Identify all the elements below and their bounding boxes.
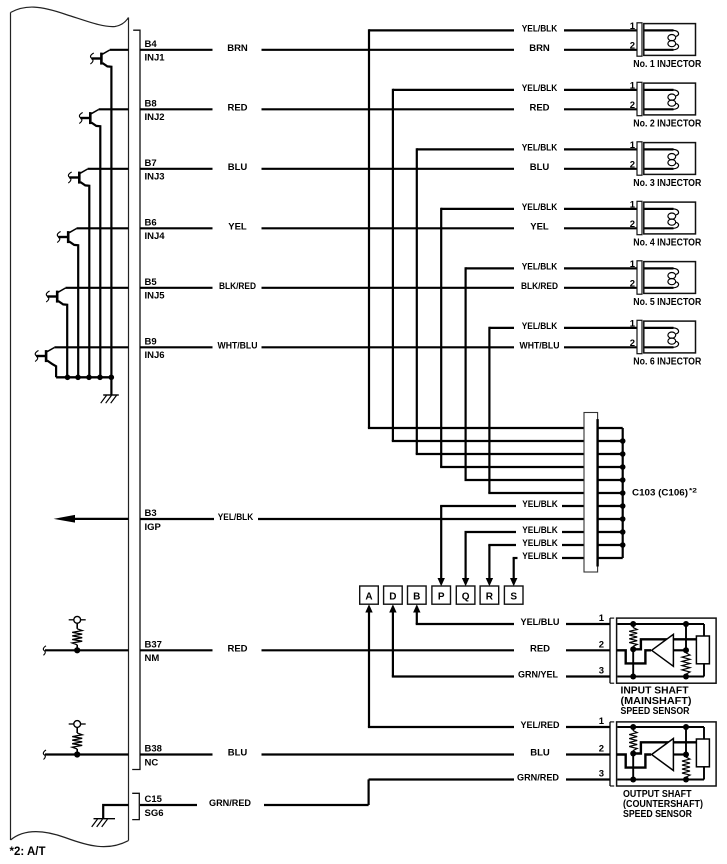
wire Q vertical with arrow bbox=[462, 532, 469, 586]
svg-text:*2: A/T: *2: A/T bbox=[10, 846, 46, 858]
svg-text:B: B bbox=[413, 592, 420, 603]
wire YEL/BLK injector 2 pin 1 to connector bbox=[564, 89, 637, 91]
svg-text:INJ2: INJ2 bbox=[145, 112, 165, 123]
pin number 2 injector 3 bbox=[630, 160, 635, 171]
junction C103 bus dot 7 bbox=[620, 516, 626, 522]
pin number 2 injector 2 bbox=[630, 100, 635, 111]
svg-text:C103 (C106): C103 (C106) bbox=[632, 488, 688, 499]
label No. 5 INJECTOR bbox=[633, 297, 702, 308]
ECU connector bracket B4-B38 bbox=[132, 30, 140, 769]
injector L4 coil symbol No. 4 INJECTOR bbox=[637, 201, 696, 234]
junction C103 bus dot 8 bbox=[620, 529, 626, 535]
label YEL (right) bbox=[530, 222, 549, 233]
junction C103 bus dot 6 bbox=[620, 503, 626, 509]
wire ECU internal collector Q3 to pin B7 bbox=[88, 168, 129, 170]
wire YEL/BLK R horizontal bbox=[488, 544, 516, 546]
wire YEL/BLK injector 6 pin 1 horizontal bbox=[489, 327, 514, 329]
wire YEL/BLK R to C103 bbox=[562, 544, 584, 546]
svg-text:INJ5: INJ5 bbox=[145, 291, 166, 302]
wire YEL/RED (A terminal to sensor 2 pin 1) bbox=[368, 720, 610, 731]
svg-text:1: 1 bbox=[630, 259, 636, 270]
injector L3 coil symbol No. 3 INJECTOR bbox=[637, 142, 696, 175]
wire YEL/BLK injector 5 to C103 bbox=[465, 479, 585, 481]
connector terminal box R bbox=[480, 586, 499, 604]
wire GRN/RED upper segment bbox=[369, 778, 514, 780]
wire C15 internal to ground bbox=[103, 805, 128, 819]
wire BLK/RED B5 segment at ECU bbox=[140, 287, 213, 289]
svg-text:WHT/BLU: WHT/BLU bbox=[520, 341, 560, 352]
wire YEL/BLK P to C103 bbox=[562, 505, 584, 507]
svg-text:SPEED SENSOR: SPEED SENSOR bbox=[621, 706, 691, 717]
svg-text:2: 2 bbox=[630, 160, 635, 171]
pin label B4/INJ1 bbox=[145, 39, 166, 64]
pin label B38/NC bbox=[145, 744, 162, 769]
injector L5 coil symbol No. 5 INJECTOR bbox=[637, 261, 696, 294]
wire R vertical with arrow bbox=[486, 545, 493, 586]
wire WHT/BLU mid segment bbox=[262, 346, 515, 348]
svg-text:R: R bbox=[486, 592, 494, 603]
junction emitter bus dot 2 bbox=[75, 375, 81, 381]
wire RED to sensor pin 2 bbox=[566, 649, 610, 651]
svg-text:INJ6: INJ6 bbox=[145, 350, 165, 361]
svg-text:B7: B7 bbox=[145, 158, 157, 169]
label C103 (C106)*2 bbox=[632, 488, 697, 499]
injector L1 coil symbol No. 1 INJECTOR bbox=[637, 23, 696, 56]
wire BRN to injector pin 2 bbox=[564, 49, 637, 51]
wire RED B37 at ECU bbox=[140, 649, 213, 651]
wire YEL/BLK B3 to C103 bbox=[258, 518, 584, 520]
wire GRN/RED mid segment bbox=[264, 804, 369, 806]
label YEL/BLK (S) bbox=[522, 551, 558, 562]
svg-text:2: 2 bbox=[630, 41, 635, 52]
transistor Q2 (INJ2 driver) bbox=[79, 110, 100, 378]
svg-text:BRN: BRN bbox=[529, 43, 550, 54]
wire BLU to sensor 2 pin 2 bbox=[566, 753, 610, 755]
wire D vertical with arrow bbox=[389, 604, 396, 676]
wire YEL/BLK injector 5 pin 1 to connector bbox=[564, 267, 637, 269]
svg-text:D: D bbox=[389, 592, 396, 603]
pin number 2 sensor 1 bbox=[599, 639, 604, 650]
label BLU (left) bbox=[228, 162, 248, 173]
svg-text:BRN: BRN bbox=[227, 43, 248, 54]
svg-text:BLU: BLU bbox=[530, 162, 550, 173]
label RED (left) bbox=[227, 103, 247, 114]
connector terminal box A bbox=[360, 586, 379, 604]
wire GRN/RED to sensor 2 pin 3 bbox=[566, 778, 610, 780]
wire YEL/BLK injector 3 to C103 bbox=[416, 453, 584, 455]
resistor pull-up R (NM) bbox=[69, 616, 86, 653]
pin label B37/NM bbox=[145, 639, 162, 664]
label BLK/RED (left) bbox=[219, 281, 256, 292]
wire BRN mid segment bbox=[262, 49, 515, 51]
label YEL (left) bbox=[228, 222, 247, 233]
svg-text:YEL/BLK: YEL/BLK bbox=[522, 83, 558, 94]
label YEL/BLK (P) bbox=[522, 499, 558, 510]
wire BLU B38 at ECU bbox=[140, 753, 213, 755]
svg-text:B4: B4 bbox=[145, 39, 158, 50]
pin label B6/INJ4 bbox=[145, 217, 166, 242]
svg-text:INJ3: INJ3 bbox=[145, 172, 165, 183]
connector terminal box D bbox=[384, 586, 403, 604]
wire RED mid segment bbox=[262, 649, 515, 651]
svg-text:YEL/BLK: YEL/BLK bbox=[522, 499, 558, 510]
svg-text:1: 1 bbox=[630, 140, 636, 151]
label YEL/BLK injector 3 bbox=[522, 143, 558, 154]
svg-text:2: 2 bbox=[630, 219, 635, 230]
pin number 2 injector 4 bbox=[630, 219, 635, 230]
label WHT/BLU (left) bbox=[218, 341, 258, 352]
junction C103 bus dot 9 bbox=[620, 542, 626, 548]
label BLK/RED (right) bbox=[521, 281, 558, 292]
svg-text:RED: RED bbox=[227, 644, 247, 655]
wire YEL/BLK injector 3 vertical bbox=[416, 148, 418, 454]
wire S vertical with arrow bbox=[510, 558, 517, 586]
label No. 2 INJECTOR bbox=[633, 118, 702, 129]
svg-text:B5: B5 bbox=[145, 277, 158, 288]
injector L6 coil symbol No. 6 INJECTOR bbox=[637, 320, 696, 353]
label RED (right) bbox=[530, 644, 550, 655]
pin number 1 sensor 1 bbox=[599, 613, 605, 624]
pin number 1 injector 4 bbox=[630, 200, 636, 211]
wire BRN B4 segment at ECU bbox=[140, 49, 213, 51]
junction emitter bus dot 3 bbox=[86, 375, 92, 381]
svg-text:WHT/BLU: WHT/BLU bbox=[218, 341, 258, 352]
wire YEL/BLK injector 1 vertical bbox=[368, 29, 370, 428]
svg-text:No. 3 INJECTOR: No. 3 INJECTOR bbox=[633, 178, 702, 189]
junction C103 bus dot 5 bbox=[620, 490, 626, 496]
pin number 3 sensor 2 bbox=[599, 769, 604, 780]
svg-text:1: 1 bbox=[599, 716, 605, 727]
pin number 1 injector 1 bbox=[630, 21, 636, 32]
wire B vertical with arrow bbox=[413, 604, 420, 624]
svg-text:YEL/BLK: YEL/BLK bbox=[218, 512, 254, 523]
ECU torn-page top edge bbox=[11, 7, 129, 27]
svg-text:BLU: BLU bbox=[228, 748, 248, 759]
svg-text:No. 5 INJECTOR: No. 5 INJECTOR bbox=[633, 297, 702, 308]
injector L2 coil symbol No. 2 INJECTOR bbox=[637, 82, 696, 115]
speed sensor U2 box and internals bbox=[610, 722, 716, 786]
wire YEL to injector pin 2 bbox=[564, 227, 637, 229]
pin label B3/IGP bbox=[145, 508, 162, 533]
wire YEL/BLK injector 3 pin 1 horizontal bbox=[417, 148, 514, 150]
svg-text:RED: RED bbox=[530, 644, 550, 655]
svg-text:BLK/RED: BLK/RED bbox=[521, 281, 558, 292]
pin number 1 injector 2 bbox=[630, 81, 636, 92]
label GRN/RED (left) bbox=[209, 798, 251, 809]
svg-text:GRN/RED: GRN/RED bbox=[517, 773, 559, 784]
wire ECU internal collector Q6 to pin B9 bbox=[54, 346, 128, 348]
svg-text:3: 3 bbox=[599, 666, 604, 677]
label YEL/BLK (IGP) bbox=[218, 512, 254, 523]
svg-text:INJ1: INJ1 bbox=[145, 53, 166, 64]
wire YEL/BLK S to C103 bbox=[562, 557, 584, 559]
pin number 3 sensor 1 bbox=[599, 666, 604, 677]
svg-text:B38: B38 bbox=[145, 744, 162, 755]
wire YEL/BLK injector 6 vertical bbox=[488, 327, 490, 493]
wire YEL/BLK injector 4 pin 1 horizontal bbox=[441, 208, 514, 210]
label RED (left) bbox=[227, 644, 247, 655]
transistor Q1 (INJ1 driver) bbox=[90, 50, 111, 377]
wire YEL/BLK Q horizontal bbox=[465, 531, 517, 533]
label No. 4 INJECTOR bbox=[633, 237, 702, 248]
svg-text:1: 1 bbox=[630, 81, 636, 92]
ECU connector bracket C15 bbox=[132, 793, 139, 819]
connector terminal box Q bbox=[456, 586, 475, 604]
svg-text:YEL/BLK: YEL/BLK bbox=[522, 143, 558, 154]
wire-end break mark B37 bbox=[43, 646, 46, 656]
speed sensor U1 box and internals bbox=[610, 618, 716, 683]
svg-text:B9: B9 bbox=[145, 336, 157, 347]
svg-text:YEL/BLU: YEL/BLU bbox=[521, 617, 560, 628]
svg-text:YEL/BLK: YEL/BLK bbox=[522, 262, 558, 273]
label BLU (right) bbox=[530, 748, 550, 759]
label No. 1 INJECTOR bbox=[633, 59, 702, 70]
wire YEL/BLK injector 6 to C103 bbox=[488, 492, 584, 494]
wire-end break mark B38 bbox=[43, 750, 46, 760]
wire YEL/BLK injector 1 pin 1 horizontal bbox=[369, 29, 514, 31]
wire YEL/BLK injector 4 vertical bbox=[440, 208, 442, 467]
svg-text:A: A bbox=[365, 592, 372, 603]
junction emitter bus dot 1 bbox=[65, 375, 71, 381]
wire YEL B6 segment at ECU bbox=[140, 227, 213, 229]
note *2: A/T bbox=[10, 846, 46, 858]
wire BLU B7 segment at ECU bbox=[140, 168, 213, 170]
svg-text:Q: Q bbox=[462, 592, 470, 603]
label YEL/BLK injector 6 bbox=[522, 321, 558, 332]
wire WHT/BLU to injector pin 2 bbox=[564, 346, 637, 348]
wire BLU mid segment bbox=[262, 168, 515, 170]
pin number 1 sensor 2 bbox=[599, 716, 605, 727]
svg-text:YEL: YEL bbox=[530, 222, 549, 233]
ECU torn-page right edge bbox=[128, 18, 130, 841]
label WHT/BLU (right) bbox=[520, 341, 560, 352]
svg-text:IGP: IGP bbox=[145, 522, 162, 533]
junction emitter bus dot 4 bbox=[97, 375, 103, 381]
wire RED B8 segment at ECU bbox=[140, 108, 213, 110]
pin number 1 injector 3 bbox=[630, 140, 636, 151]
wire YEL mid segment bbox=[262, 227, 515, 229]
wire YEL/BLK injector 6 pin 1 to connector bbox=[564, 327, 637, 329]
svg-text:RED: RED bbox=[227, 103, 247, 114]
label YEL/BLK (Q) bbox=[522, 525, 558, 536]
resistor pull-up R (NC) bbox=[69, 721, 86, 758]
label YEL/BLK (R) bbox=[522, 538, 558, 549]
svg-text:INJ4: INJ4 bbox=[145, 231, 166, 242]
wire YEL/BLK Q to C103 bbox=[562, 531, 584, 533]
svg-text:2: 2 bbox=[599, 639, 604, 650]
svg-text:BLK/RED: BLK/RED bbox=[219, 281, 256, 292]
transistor Q6 (INJ6 driver) bbox=[35, 348, 56, 378]
svg-text:2: 2 bbox=[630, 338, 635, 349]
label RED (right) bbox=[529, 103, 549, 114]
svg-text:P: P bbox=[438, 592, 445, 603]
svg-text:2: 2 bbox=[599, 744, 604, 755]
pin number 2 sensor 2 bbox=[599, 744, 604, 755]
wire YEL/BLK injector 4 to C103 bbox=[440, 466, 584, 468]
wire B38 internal bbox=[45, 753, 129, 755]
svg-text:NM: NM bbox=[145, 653, 160, 664]
junction C103 bus dot 2 bbox=[620, 451, 626, 457]
pin label B7/INJ3 bbox=[145, 158, 165, 183]
label No. 6 INJECTOR bbox=[633, 356, 702, 367]
svg-text:GRN/RED: GRN/RED bbox=[209, 798, 251, 809]
svg-text:B8: B8 bbox=[145, 98, 157, 109]
svg-text:YEL/BLK: YEL/BLK bbox=[522, 551, 558, 562]
wire YEL/BLK injector 1 pin 1 to connector bbox=[564, 29, 637, 31]
ground G101 (transistor emitters) bbox=[101, 395, 119, 403]
svg-text:YEL/BLK: YEL/BLK bbox=[522, 538, 558, 549]
svg-text:C15: C15 bbox=[145, 794, 163, 805]
pin number 1 injector 5 bbox=[630, 259, 636, 270]
svg-text:No. 6 INJECTOR: No. 6 INJECTOR bbox=[633, 356, 702, 367]
pin number 2 injector 6 bbox=[630, 338, 635, 349]
connector terminal box P bbox=[432, 586, 451, 604]
ECU torn-page bottom edge bbox=[11, 832, 129, 847]
wire YEL/BLK injector 5 pin 1 horizontal bbox=[466, 267, 514, 269]
wire GRN/RED vertical bbox=[368, 779, 370, 805]
wire YEL/BLK injector 4 pin 1 to connector bbox=[564, 208, 637, 210]
wire B37 internal bbox=[45, 649, 129, 651]
svg-text:B6: B6 bbox=[145, 217, 157, 228]
wire WHT/BLU B9 segment at ECU bbox=[140, 346, 213, 348]
svg-text:SPEED SENSOR: SPEED SENSOR bbox=[623, 809, 693, 820]
svg-text:2: 2 bbox=[630, 100, 635, 111]
label No. 3 INJECTOR bbox=[633, 178, 702, 189]
svg-text:*2: *2 bbox=[689, 488, 697, 495]
svg-text:1: 1 bbox=[630, 21, 636, 32]
wire P vertical with arrow bbox=[438, 506, 445, 586]
wire ECU internal collector Q4 to pin B6 bbox=[77, 227, 129, 229]
svg-text:SG6: SG6 bbox=[145, 808, 164, 819]
label YEL/BLK injector 5 bbox=[522, 262, 558, 273]
wire YEL/BLK injector 2 vertical bbox=[392, 89, 394, 441]
label GRN/RED (right) bbox=[517, 773, 559, 784]
ground G101 (SG6) bbox=[92, 819, 115, 827]
svg-text:YEL/BLK: YEL/BLK bbox=[522, 202, 558, 213]
wire RED mid segment bbox=[262, 108, 515, 110]
pin number 1 injector 6 bbox=[630, 319, 636, 330]
wire bus to ground bbox=[110, 377, 112, 395]
label sensor 2 name bbox=[623, 789, 703, 820]
wire YEL/BLK injector 2 to C103 bbox=[392, 440, 584, 442]
svg-text:B37: B37 bbox=[145, 639, 162, 650]
label BLU (left) bbox=[228, 748, 248, 759]
junction C103 bus dot 3 bbox=[620, 464, 626, 470]
svg-text:B3: B3 bbox=[145, 508, 157, 519]
wire YEL/BLK P horizontal bbox=[440, 505, 516, 507]
pin number 2 injector 1 bbox=[630, 41, 635, 52]
wire BLU mid segment bbox=[262, 753, 515, 755]
transistor Q3 (INJ3 driver) bbox=[68, 169, 89, 377]
wire A vertical with arrow bbox=[365, 604, 372, 727]
svg-text:BLU: BLU bbox=[228, 162, 248, 173]
svg-text:YEL/BLK: YEL/BLK bbox=[522, 321, 558, 332]
pin number 2 injector 5 bbox=[630, 279, 635, 290]
label BRN (right) bbox=[529, 43, 550, 54]
wire YEL/BLK B3 at ECU bbox=[140, 518, 214, 520]
svg-text:S: S bbox=[510, 592, 517, 603]
connector terminal box B bbox=[408, 586, 427, 604]
junction C103 bus dot 1 bbox=[620, 438, 626, 444]
svg-text:1: 1 bbox=[630, 200, 636, 211]
junction C103 bus dot 4 bbox=[620, 477, 626, 483]
wire ECU internal collector Q2 to pin B8 bbox=[99, 108, 129, 110]
ECU torn-page left edge bbox=[10, 13, 12, 841]
svg-text:No. 1 INJECTOR: No. 1 INJECTOR bbox=[633, 59, 702, 70]
wire GRN/YEL (D terminal to sensor pin 3) bbox=[392, 670, 610, 681]
svg-text:RED: RED bbox=[529, 103, 549, 114]
connector terminal box S bbox=[504, 586, 523, 604]
wire BLK/RED to injector pin 2 bbox=[564, 287, 637, 289]
wire YEL/BLK S horizontal bbox=[513, 557, 518, 559]
svg-text:No. 4 INJECTOR: No. 4 INJECTOR bbox=[633, 237, 702, 248]
wire YEL/BLK injector 2 pin 1 horizontal bbox=[393, 89, 514, 91]
wire YEL/BLK injector 3 pin 1 to connector bbox=[564, 148, 637, 150]
svg-text:GRN/YEL: GRN/YEL bbox=[518, 670, 558, 681]
label YEL/BLK injector 1 bbox=[522, 24, 558, 35]
wire GRN/RED C15 at ECU bbox=[140, 804, 197, 806]
transistor Q5 (INJ5 driver) bbox=[46, 288, 67, 377]
label BRN (left) bbox=[227, 43, 248, 54]
label sensor 1 name bbox=[621, 686, 692, 717]
wire YEL/BLK injector 5 vertical bbox=[465, 267, 467, 480]
wire ECU internal collector Q1 to pin B4 bbox=[110, 49, 129, 51]
wire BLU to injector pin 2 bbox=[564, 168, 637, 170]
svg-text:YEL/BLK: YEL/BLK bbox=[522, 525, 558, 536]
svg-text:1: 1 bbox=[599, 613, 605, 624]
svg-text:BLU: BLU bbox=[530, 748, 550, 759]
pin label B9/INJ6 bbox=[145, 336, 165, 361]
transistor Q4 (INJ4 driver) bbox=[57, 229, 78, 378]
pin label B8/INJ2 bbox=[145, 98, 165, 123]
pin label B5/INJ5 bbox=[145, 277, 166, 302]
wire YEL/BLU (B terminal to sensor pin 1) bbox=[416, 617, 610, 628]
arrow IGP power feed (internal) bbox=[54, 515, 129, 523]
svg-text:NC: NC bbox=[145, 757, 159, 768]
junction emitter bus dot 5 bbox=[109, 375, 115, 381]
wire YEL/BLK injector 1 to C103 bbox=[368, 427, 584, 429]
svg-text:3: 3 bbox=[599, 769, 604, 780]
wire emitter common bus bbox=[56, 376, 111, 378]
svg-text:YEL: YEL bbox=[228, 222, 247, 233]
svg-text:1: 1 bbox=[630, 319, 636, 330]
wire RED to injector pin 2 bbox=[564, 108, 637, 110]
svg-text:2: 2 bbox=[630, 279, 635, 290]
svg-text:No. 2 INJECTOR: No. 2 INJECTOR bbox=[633, 118, 702, 129]
svg-text:YEL/RED: YEL/RED bbox=[521, 720, 560, 731]
wire BLK/RED mid segment bbox=[262, 287, 515, 289]
connector C103 (C106) body bbox=[584, 413, 623, 573]
pin label C15/SG6 bbox=[145, 794, 164, 819]
label BLU (right) bbox=[530, 162, 550, 173]
svg-text:YEL/BLK: YEL/BLK bbox=[522, 24, 558, 35]
wire ECU internal collector Q5 to pin B5 bbox=[66, 287, 129, 289]
label YEL/BLK injector 4 bbox=[522, 202, 558, 213]
label YEL/BLK injector 2 bbox=[522, 83, 558, 94]
